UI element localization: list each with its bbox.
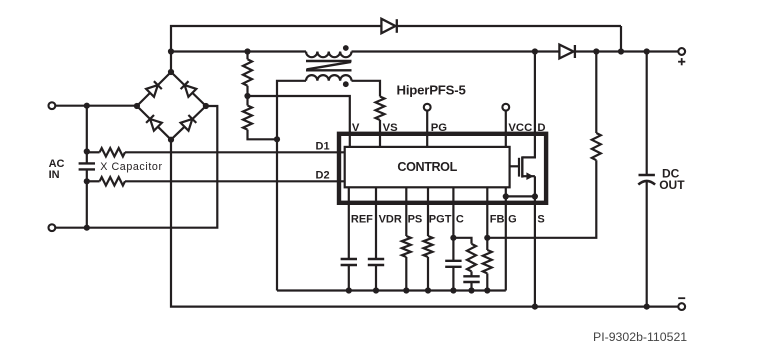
resistor, D1 line (100, 148, 125, 156)
capacitor, DC output bulk (polarized) (639, 174, 655, 177)
node: S / ground bus (532, 304, 538, 310)
svg-text:C: C (456, 213, 464, 225)
svg-text:V: V (352, 122, 360, 134)
wire: output capacitor leg (646, 52, 648, 176)
node: strap right (source) (532, 193, 538, 199)
node: C / rail (450, 287, 456, 293)
bridge rectifier BR1 (137, 72, 171, 106)
svg-text:VS: VS (383, 122, 399, 134)
node: feedback resistor / rail2 (593, 48, 599, 54)
AC input terminal (neutral) (49, 224, 56, 231)
inductor L1 main winding (PFC choke) (306, 52, 352, 58)
bridge diode, lower-left (150, 119, 162, 131)
AC input terminal (line) (49, 102, 56, 109)
node: bridge right (203, 103, 209, 109)
polarity dot, main winding (343, 45, 349, 51)
node: VDR / rail (373, 287, 379, 293)
IC U1 HiperPFS-5 package outline (339, 134, 546, 203)
svg-text:PS: PS (408, 213, 423, 225)
node: REF / rail (346, 287, 352, 293)
capacitor CX (X capacitor) (79, 162, 95, 164)
svg-text:G: G (508, 213, 517, 225)
svg-text:FB: FB (490, 213, 505, 225)
resistor, FB upper divider (592, 133, 601, 160)
node: PGT / rail (425, 287, 431, 293)
resistor, VS line (376, 97, 385, 121)
node: bridge bottom (168, 137, 174, 143)
wire: gate-return strap (506, 187, 535, 196)
resistor, V divider lower (243, 106, 252, 130)
wire: chain middle (246, 86, 248, 106)
wire: VS pin line (379, 120, 381, 148)
bridge diode, lower-right (181, 119, 193, 131)
wire: top rail right drop to output rail (620, 26, 622, 52)
diode D (boost diode, top rail) (381, 19, 395, 33)
node: chain / rail2 (244, 48, 250, 54)
node: D1 tap (84, 148, 90, 154)
node: top rail drop / rail2 (618, 48, 624, 54)
terminal: VCC (502, 104, 509, 111)
svg-text:D1: D1 (316, 141, 330, 153)
wire: D2 sense line (87, 180, 100, 182)
node: D / rail2 (532, 48, 538, 54)
wire: AC neutral to bridge right node (55, 106, 217, 228)
MOSFET Q1 source lead with arrow (522, 175, 535, 177)
wire: VDR pin leg (375, 187, 377, 259)
MOSFET Q1 drain lead (522, 134, 535, 158)
capacitor, compensation (470, 271, 472, 276)
svg-text:PG: PG (431, 122, 448, 134)
wire: chain bottom to bias return (248, 130, 278, 140)
MOSFET Q1 gate bar (518, 158, 520, 177)
resistor, compensation (467, 244, 476, 272)
svg-text:HiperPFS-5: HiperPFS-5 (397, 83, 466, 98)
wire: PS pin leg (405, 187, 407, 236)
node: FB junction (484, 235, 490, 241)
resistor, FB lower divider (483, 250, 492, 273)
node: X-cap bottom (84, 225, 90, 231)
wire: PG pin line (426, 110, 428, 147)
svg-text:VCC: VCC (508, 122, 532, 134)
svg-text:VDR: VDR (379, 213, 402, 225)
node: bridge left (134, 103, 140, 109)
MOSFET Q1 channel bar (521, 156, 523, 177)
svg-text:IN: IN (49, 169, 60, 181)
capacitor, C pin (445, 260, 461, 262)
svg-text:PI-9302b-110521: PI-9302b-110521 (593, 330, 687, 344)
label: + (678, 61, 685, 63)
wire: rectified bus rail (171, 50, 306, 52)
capacitor, REF bypass (341, 258, 357, 260)
wire: top boost-diode rail (171, 26, 381, 72)
node: C branch (450, 235, 456, 241)
node: chain mid (V tap) (244, 93, 250, 99)
DC output terminal (+) (678, 48, 685, 55)
wire: X capacitor leg (86, 106, 88, 164)
node: output cap / rail2 (644, 48, 650, 54)
wire: C pin leg (452, 187, 454, 260)
resistor, PGT program (424, 236, 433, 257)
svg-text:S: S (537, 213, 544, 225)
node: compensation / rail (468, 287, 474, 293)
svg-text:D: D (537, 122, 545, 134)
wire: V-divider chain top (246, 52, 248, 60)
node: strap left (503, 193, 509, 199)
bridge diode, upper-right (185, 85, 197, 97)
terminal: PG (424, 104, 431, 111)
node: PS / rail (403, 287, 409, 293)
node: D2 tap (84, 178, 90, 184)
diode, output rectifier (rail2) (559, 45, 573, 59)
MOSFET Q1 gate lead (510, 165, 519, 167)
inductor core (306, 60, 352, 62)
node: X-cap top (84, 103, 90, 109)
wire: PGT pin leg (427, 187, 429, 236)
node: bridge-top / rail junction (168, 48, 174, 54)
svg-text:REF: REF (351, 213, 373, 225)
node: FB / rail (484, 287, 490, 293)
svg-text:OUT: OUT (659, 178, 685, 192)
node: output cap / ground bus (644, 304, 650, 310)
wire: AC line input to bridge (55, 105, 137, 107)
wire: REF pin leg (348, 187, 350, 259)
wire: VCC pin line (505, 110, 507, 147)
svg-text:PGT: PGT (429, 213, 452, 225)
svg-text:CONTROL: CONTROL (397, 160, 457, 174)
svg-text:X Capacitor: X Capacitor (100, 161, 162, 173)
wire: signal ground rail (277, 289, 506, 291)
wire: compensation branch (453, 238, 471, 244)
wire: FB to output divider (487, 160, 596, 238)
wire: divider top (595, 52, 597, 134)
svg-text:D2: D2 (316, 170, 330, 182)
capacitor, VDR bypass (368, 258, 384, 260)
resistor, PS program (402, 236, 411, 257)
bridge diode, upper-left (146, 85, 158, 97)
wire: G pin down to signal ground rail (505, 196, 507, 290)
node: bias return junction (274, 136, 280, 142)
wire: source down to S pin (534, 176, 536, 306)
wire: bias winding left return down to signal ground rail (277, 81, 306, 291)
label: - (678, 297, 685, 299)
resistor, D2 line (100, 177, 125, 185)
wire: V pin line (248, 96, 350, 148)
resistor, V divider upper (243, 59, 252, 85)
DC output terminal (-) (678, 303, 685, 310)
inductor L1 bias winding (306, 75, 352, 81)
CONTROL block (345, 147, 510, 187)
wire: D1 sense line (87, 151, 100, 153)
wire: D pin line (534, 52, 536, 134)
wire: bias winding right to VS resistor (352, 81, 381, 97)
wire: bridge bottom to ground bus (171, 140, 678, 307)
node: bridge top (168, 69, 174, 75)
wire: FB pin leg (486, 187, 488, 250)
polarity dot, bias winding (343, 81, 349, 87)
